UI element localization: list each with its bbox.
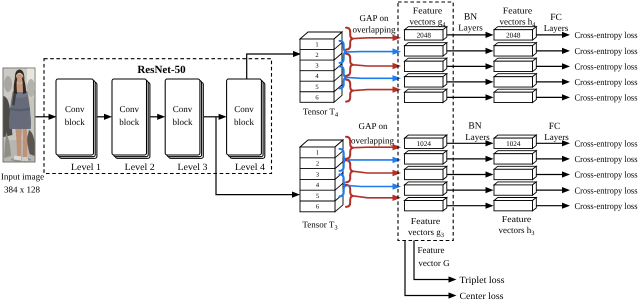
BN arrow g4->h4 row 1 bbox=[447, 32, 494, 38]
svg-text:Level 2: Level 2 bbox=[125, 163, 155, 173]
svg-text:Cross-entropy loss: Cross-entropy loss bbox=[575, 139, 638, 149]
feature vector g4 box 4 bbox=[405, 74, 447, 87]
BN arrow g3->h3 row 2 bbox=[447, 156, 494, 162]
arrow: Level 2 to Level 3 bbox=[151, 114, 166, 120]
feature vector g4 box 2 bbox=[405, 43, 447, 56]
svg-text:Cross-entropy loss: Cross-entropy loss bbox=[575, 46, 638, 56]
dashed box: feature vector G group bbox=[398, 2, 453, 241]
FC arrow h3 row 3 bbox=[536, 171, 570, 177]
svg-text:Conv: Conv bbox=[65, 104, 85, 114]
svg-text:1: 1 bbox=[315, 42, 318, 49]
feature vector g3 box 1 bbox=[405, 135, 447, 148]
BN arrow g3->h3 row 5 bbox=[447, 203, 494, 209]
svg-text:Conv: Conv bbox=[234, 104, 254, 114]
svg-text:Level 4: Level 4 bbox=[235, 163, 265, 173]
svg-text:1: 1 bbox=[316, 150, 319, 157]
blue GAP arrow T3 to g3 box4 bbox=[347, 183, 401, 189]
BN arrow g3->h3 row 1 bbox=[447, 140, 494, 146]
svg-text:3: 3 bbox=[316, 171, 319, 178]
red GAP arrow T3 to g3 box5 bbox=[354, 195, 402, 201]
blue GAP arrow T4 to g4 box4 bbox=[347, 75, 401, 81]
FC arrow h3 row 1 bbox=[536, 140, 570, 146]
red brace T3 parts 3-4 bbox=[346, 160, 354, 182]
red GAP arrow T4 to g4 box1 bbox=[354, 35, 402, 41]
svg-text:ResNet-50: ResNet-50 bbox=[137, 64, 186, 76]
svg-text:Layers: Layers bbox=[544, 132, 569, 142]
red brace T3 parts 1-2 bbox=[346, 137, 354, 159]
svg-text:Cross-entropy loss: Cross-entropy loss bbox=[575, 77, 638, 87]
BN arrow g4->h4 row 4 bbox=[447, 79, 494, 85]
feature vector g3 box 5 bbox=[405, 198, 447, 211]
svg-text:overlapping: overlapping bbox=[353, 25, 396, 35]
FC arrow h3 row 4 bbox=[536, 187, 570, 193]
FC arrow h3 row 2 bbox=[536, 156, 570, 162]
input image photo bbox=[3, 68, 35, 162]
svg-text:Level 3: Level 3 bbox=[178, 163, 208, 173]
feature vector h3 box 3 bbox=[494, 166, 536, 179]
feature vector h3 box 4 bbox=[494, 182, 536, 195]
tensor T3 (6 horizontal parts) bbox=[300, 140, 343, 212]
blue brace T4 parts 2-3 bbox=[340, 41, 348, 63]
FC arrow h4 row 2 bbox=[536, 48, 570, 54]
feature vector h4 box 1 bbox=[494, 27, 536, 40]
conv block Level 2 bbox=[112, 79, 150, 158]
svg-text:2: 2 bbox=[315, 52, 318, 59]
svg-text:BN: BN bbox=[464, 13, 477, 23]
svg-text:Layers: Layers bbox=[458, 23, 483, 33]
svg-text:Layers: Layers bbox=[465, 132, 490, 142]
svg-text:2: 2 bbox=[316, 161, 319, 168]
BN arrow g3->h3 row 3 bbox=[447, 171, 494, 177]
blue brace T4 parts 4-5 bbox=[340, 66, 348, 88]
svg-text:2048: 2048 bbox=[417, 31, 432, 39]
svg-text:2048: 2048 bbox=[506, 31, 521, 39]
svg-text:block: block bbox=[119, 117, 139, 127]
feature vector h4 box 4 bbox=[494, 74, 536, 87]
svg-text:5: 5 bbox=[315, 84, 318, 91]
svg-text:Cross-entropy loss: Cross-entropy loss bbox=[575, 93, 638, 103]
feature vector h4 box 2 bbox=[494, 43, 536, 56]
feature vector g4 box 3 bbox=[405, 58, 447, 71]
arrow: Level 1 to Level 2 bbox=[98, 114, 113, 120]
svg-text:overlapping: overlapping bbox=[351, 136, 394, 146]
svg-text:FC: FC bbox=[550, 13, 562, 23]
feature vector h3 box 2 bbox=[494, 151, 536, 164]
svg-text:FC: FC bbox=[549, 122, 561, 132]
red brace T4 parts 5-6 bbox=[346, 80, 354, 102]
red brace T4 parts 3-4 bbox=[346, 54, 354, 76]
svg-text:3: 3 bbox=[315, 63, 318, 70]
feature vector h3 box 1 bbox=[494, 135, 536, 148]
svg-text:block: block bbox=[173, 117, 193, 127]
svg-text:Feature: Feature bbox=[503, 6, 533, 16]
arrow: input image to Level 1 conv block bbox=[36, 114, 57, 120]
svg-text:Layers: Layers bbox=[544, 23, 569, 33]
svg-text:Feature: Feature bbox=[502, 214, 532, 224]
BN arrow g4->h4 row 3 bbox=[447, 63, 494, 69]
red brace T4 parts 1-2 bbox=[346, 28, 354, 50]
red GAP arrow T4 to g4 box5 bbox=[354, 86, 402, 92]
blue brace T3 parts 2-3 bbox=[340, 149, 348, 171]
svg-text:Cross-entropy loss: Cross-entropy loss bbox=[575, 185, 638, 195]
FC arrow h4 row 5 bbox=[536, 94, 570, 100]
feature vector g4 box 5 bbox=[405, 89, 447, 102]
BN arrow g4->h4 row 5 bbox=[447, 94, 494, 100]
blue brace T3 parts 4-5 bbox=[340, 174, 348, 196]
feature vector g3 box 2 bbox=[405, 151, 447, 164]
FC arrow h4 row 4 bbox=[536, 79, 570, 85]
wire: G to Center loss bbox=[405, 241, 449, 296]
svg-text:5: 5 bbox=[316, 193, 319, 200]
svg-text:Triplet loss: Triplet loss bbox=[460, 276, 505, 286]
svg-text:384 x 128: 384 x 128 bbox=[4, 185, 41, 195]
svg-text:Level 1: Level 1 bbox=[71, 163, 101, 173]
tensor T4 (6 horizontal parts) bbox=[300, 32, 342, 102]
feature vector g3 box 3 bbox=[405, 166, 447, 179]
FC arrow h4 row 3 bbox=[536, 63, 570, 69]
svg-text:Input image: Input image bbox=[1, 172, 44, 182]
wire: Level 4 output up to Tensor T4 bbox=[247, 54, 294, 79]
svg-text:Cross-entropy loss: Cross-entropy loss bbox=[575, 201, 638, 211]
svg-text:Cross-entropy loss: Cross-entropy loss bbox=[575, 154, 638, 164]
svg-text:Conv: Conv bbox=[119, 104, 139, 114]
svg-text:Feature: Feature bbox=[413, 6, 443, 16]
conv block Level 4 bbox=[227, 79, 265, 158]
svg-text:Feature: Feature bbox=[411, 216, 441, 226]
conv block Level 3 bbox=[165, 79, 203, 158]
wire: G to Triplet loss bbox=[414, 241, 449, 280]
feature vector h4 box 3 bbox=[494, 58, 536, 71]
feature vector g4 box 1 bbox=[405, 27, 447, 40]
svg-text:vector G: vector G bbox=[418, 258, 450, 268]
arrow: Level 3 to Level 4 bbox=[204, 114, 227, 120]
feature vector g3 box 4 bbox=[405, 182, 447, 195]
svg-text:Cross-entropy loss: Cross-entropy loss bbox=[575, 30, 638, 40]
svg-text:GAP on: GAP on bbox=[360, 13, 389, 23]
svg-text:1024: 1024 bbox=[506, 140, 521, 148]
feature vector h3 box 5 bbox=[494, 198, 536, 211]
svg-text:1024: 1024 bbox=[417, 140, 432, 148]
red brace T3 parts 5-6 bbox=[346, 185, 354, 207]
BN arrow g4->h4 row 2 bbox=[447, 48, 494, 54]
blue GAP arrow T3 to g3 box2 bbox=[347, 157, 401, 163]
red GAP arrow T3 to g3 box1 bbox=[354, 144, 402, 150]
feature vector h4 box 5 bbox=[494, 89, 536, 102]
wire: Level 3 output branch down to Tensor T3 bbox=[216, 117, 293, 194]
ResNet-50 dashed box bbox=[44, 59, 272, 174]
red GAP arrow T3 to g3 box3 bbox=[354, 170, 402, 176]
red GAP arrow T4 to g4 box3 bbox=[354, 63, 402, 69]
svg-text:GAP on: GAP on bbox=[359, 121, 388, 131]
svg-text:Conv: Conv bbox=[173, 104, 193, 114]
blue GAP arrow T4 to g4 box2 bbox=[347, 48, 401, 54]
BN arrow g3->h3 row 4 bbox=[447, 187, 494, 193]
conv block Level 1 bbox=[56, 79, 97, 158]
svg-text:Feature: Feature bbox=[418, 245, 445, 255]
svg-text:Cross-entropy loss: Cross-entropy loss bbox=[575, 62, 638, 72]
svg-text:BN: BN bbox=[468, 122, 481, 132]
svg-text:Cross-entropy loss: Cross-entropy loss bbox=[575, 170, 638, 180]
svg-text:block: block bbox=[234, 117, 254, 127]
svg-text:block: block bbox=[65, 117, 85, 127]
FC arrow h4 row 1 bbox=[536, 32, 570, 38]
svg-text:Center loss: Center loss bbox=[460, 292, 504, 300]
FC arrow h3 row 5 bbox=[536, 203, 570, 209]
